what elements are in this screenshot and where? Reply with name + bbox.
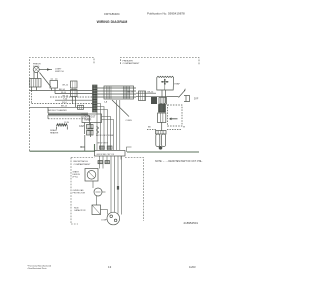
svg-text:218954501: 218954501 <box>184 221 199 225</box>
heater meander right lead to connectors <box>89 116 91 125</box>
fresh food box bottom border wire <box>30 144 95 151</box>
inline connector below block 1 <box>98 161 103 164</box>
thermostat squiggle <box>97 126 99 134</box>
relay leads <box>93 181 97 205</box>
svg-text:BK: BK <box>148 127 151 129</box>
svg-text:OR-12: OR-12 <box>62 85 69 87</box>
wires through housing <box>97 88 136 97</box>
inline connector below block 2 <box>105 161 110 164</box>
svg-text:OR-14: OR-14 <box>62 95 69 97</box>
svg-text:TIMER: TIMER <box>84 119 92 122</box>
bottom dashed tie line <box>147 129 182 131</box>
ptc relay box <box>85 169 98 182</box>
svg-text:5-A: 5-A <box>104 101 108 104</box>
lamp (fresh food light) <box>33 67 39 73</box>
housing hatch marks right <box>124 87 130 99</box>
wire bus line 2 <box>55 93 93 95</box>
wire lamp to label <box>39 69 52 71</box>
svg-text:GR W OR R: GR W OR R <box>97 143 109 145</box>
overload leads <box>102 191 106 193</box>
wire bus line 3 <box>50 96 93 98</box>
connector pair right of door switch <box>71 81 78 88</box>
freezer bus wire 1 <box>136 92 156 94</box>
freezer bus wire 2 <box>136 96 179 98</box>
svg-text:• Functional Non-Illustrated: • Functional Non-Illustrated <box>27 264 51 267</box>
svg-text:AIR DUCT HEATER: AIR DUCT HEATER <box>48 109 67 112</box>
freezer door switch diagonal <box>167 89 186 98</box>
connector block lower exits <box>97 104 104 143</box>
wire bus line 4 <box>55 99 93 101</box>
fan symbol <box>164 81 166 83</box>
heater return dashed wire <box>48 118 90 120</box>
svg-text:FRT18NRC: FRT18NRC <box>104 12 120 16</box>
svg-text:11/03: 11/03 <box>189 265 196 269</box>
machine compartment box <box>71 158 144 225</box>
timer lower lead <box>84 123 86 135</box>
svg-text:EVAP: EVAP <box>175 82 181 85</box>
inline connector on wire <box>78 105 84 109</box>
run capacitor box <box>92 205 101 215</box>
freezer switch connector <box>184 96 190 102</box>
svg-text:NOTE: – · – DENOTES PART OF CK: NOTE: – · – DENOTES PART OF CKT. PNL. <box>155 160 203 163</box>
connector pair drops to bus <box>73 97 76 108</box>
svg-text:SWITCH: SWITCH <box>55 71 64 73</box>
wire from connectors down to cabinet line <box>81 135 85 151</box>
svg-text:BR-14: BR-14 <box>61 105 68 107</box>
svg-text:• Non-Illustrated Parts: • Non-Illustrated Parts <box>27 267 47 270</box>
main harness connector block <box>93 85 98 112</box>
svg-text:13: 13 <box>108 265 112 269</box>
vertical wires to terminal block <box>97 100 120 150</box>
heater end connector 1 <box>87 125 94 130</box>
drain heater small meander <box>57 124 68 126</box>
fresh food compartment dashed box <box>30 58 95 152</box>
svg-text:PROTECTOR: PROTECTOR <box>73 193 86 195</box>
switch actuator diagonal <box>40 73 52 88</box>
wire bus line 1 <box>30 90 93 92</box>
svg-text:W-14: W-14 <box>61 92 67 94</box>
svg-text:BK-14: BK-14 <box>59 89 66 91</box>
door switch leads <box>52 88 56 94</box>
defrost timer box <box>82 114 102 123</box>
light switch body (hatched box) <box>30 79 41 88</box>
evaporator fan motor box <box>157 76 174 90</box>
svg-text:COMP: COMP <box>101 220 108 222</box>
defrost heater prong 1 <box>156 134 160 147</box>
lamp leads down to switch box <box>34 72 38 79</box>
svg-text:BK W OR Y R BR: BK W OR Y R BR <box>96 135 114 137</box>
wire bus line 5 <box>31 91 33 104</box>
inline connector on wire <box>100 146 105 149</box>
svg-text:5°F: 5°F <box>194 97 199 101</box>
compressor motor circle <box>107 212 120 225</box>
ticks below terminal block <box>100 156 122 169</box>
leader line to harness label <box>112 100 129 117</box>
defrost heater bottom blob <box>159 146 163 150</box>
freezer box bottom border wire <box>127 151 199 153</box>
svg-text:HEATER: HEATER <box>50 131 59 134</box>
svg-text:R-14: R-14 <box>62 102 67 104</box>
fan leads <box>162 90 166 103</box>
wire bus line 6 <box>30 106 93 108</box>
inline connector on wire 2 <box>107 146 112 149</box>
svg-text:W: W <box>183 127 185 129</box>
mullion heater resistor meander <box>48 113 90 116</box>
timer feed wires <box>102 117 114 151</box>
svg-text:GR W BK OR Y R: GR W BK OR Y R <box>97 154 115 156</box>
svg-text:CAP: CAP <box>79 125 84 128</box>
svg-text:COMPARTMENT: COMPARTMENT <box>123 62 141 65</box>
svg-text:CAPACITOR: CAPACITOR <box>74 209 86 212</box>
svg-text:BK-14: BK-14 <box>148 91 155 93</box>
harness housing rect <box>104 86 134 99</box>
svg-text:WIRING DIAGRAM: WIRING DIAGRAM <box>97 20 128 24</box>
bus junction connectors dark <box>151 97 157 104</box>
freezer bus connector <box>139 91 146 101</box>
run capacitor lead <box>101 209 108 211</box>
stack wires <box>161 103 165 131</box>
stack connector pair <box>159 105 166 113</box>
arrow inside dashed box <box>170 118 178 120</box>
overload protector circle <box>94 188 102 196</box>
defrost thermostat body <box>158 113 166 123</box>
heater left lead <box>47 107 49 119</box>
lamp circuit drops to bus <box>32 87 37 91</box>
svg-text:OR-14: OR-14 <box>127 91 134 93</box>
svg-text:COMPARTMENT: COMPARTMENT <box>74 163 92 166</box>
housing hatch marks <box>107 87 112 99</box>
heater end connector 2 <box>87 131 94 136</box>
door switch body <box>50 81 58 89</box>
svg-text:RECEPTACLE: RECEPTACLE <box>74 160 89 163</box>
wire capacitor to compressor <box>107 210 109 215</box>
svg-text:CONN: CONN <box>126 120 133 122</box>
defrost heater top cap <box>156 131 167 135</box>
connector blip on wire <box>117 186 119 190</box>
svg-text:(PTC): (PTC) <box>73 177 79 179</box>
drain heater leads <box>57 126 68 129</box>
compressor feed wires <box>111 156 122 215</box>
defrost heater prong 2 <box>162 134 166 147</box>
svg-text:Publication No. 5995419878: Publication No. 5995419878 <box>147 12 185 16</box>
freezer compartment dashed box <box>121 58 200 65</box>
defrost limit dashed box <box>168 105 183 126</box>
run capacitor symbol <box>88 128 94 130</box>
terminal block <box>95 151 126 157</box>
wire corner right of block <box>127 147 132 152</box>
